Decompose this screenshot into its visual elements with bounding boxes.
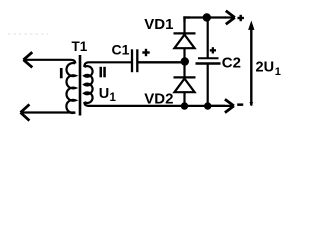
label II (secondary) [100,67,103,78]
junction dot VD2/bottom rail [181,102,188,109]
capacitor C1 [132,49,183,72]
plus C2 [210,49,216,51]
secondary winding bumps [84,66,92,103]
plus label top right [238,17,244,19]
top rail corner [185,18,191,23]
svg-text:VD1: VD1 [144,16,173,33]
secondary bottom lead / bottom rail [84,102,225,106]
svg-text:1: 1 [275,66,281,78]
primary winding I bumps [66,63,75,113]
diode VD2 [174,62,196,106]
diode VD1 [174,17,196,63]
svg-text:U: U [99,86,109,102]
capacitor C2 [196,18,221,107]
svg-text:VD2: VD2 [144,90,173,107]
output arrow - (bottom right) [210,99,234,112]
primary winding I lead bottom + arrow [21,111,75,113]
primary winding I lead top + arrow [24,60,75,64]
wire C1 to node A [137,61,183,63]
top rail [183,16,226,18]
junction dot top (C2/rail) [203,13,211,21]
plus C1 [142,51,149,53]
2U1 dimension arrow [250,24,252,106]
junction dot C2/bottom rail [204,102,211,109]
transformer core [79,55,82,116]
node A junction dot [181,57,189,65]
output arrow + (top right) [225,11,235,24]
label I (primary) [60,68,63,78]
svg-text:C2: C2 [222,54,241,71]
minus label bottom right [237,103,243,106]
svg-text:1: 1 [110,92,117,104]
svg-text:C1: C1 [112,42,130,58]
svg-text:2U: 2U [256,60,275,76]
secondary top lead to C1 [84,62,131,67]
svg-text:T1: T1 [72,39,88,54]
scan artifact dotted line [8,33,48,35]
transformer T1 [21,52,226,120]
